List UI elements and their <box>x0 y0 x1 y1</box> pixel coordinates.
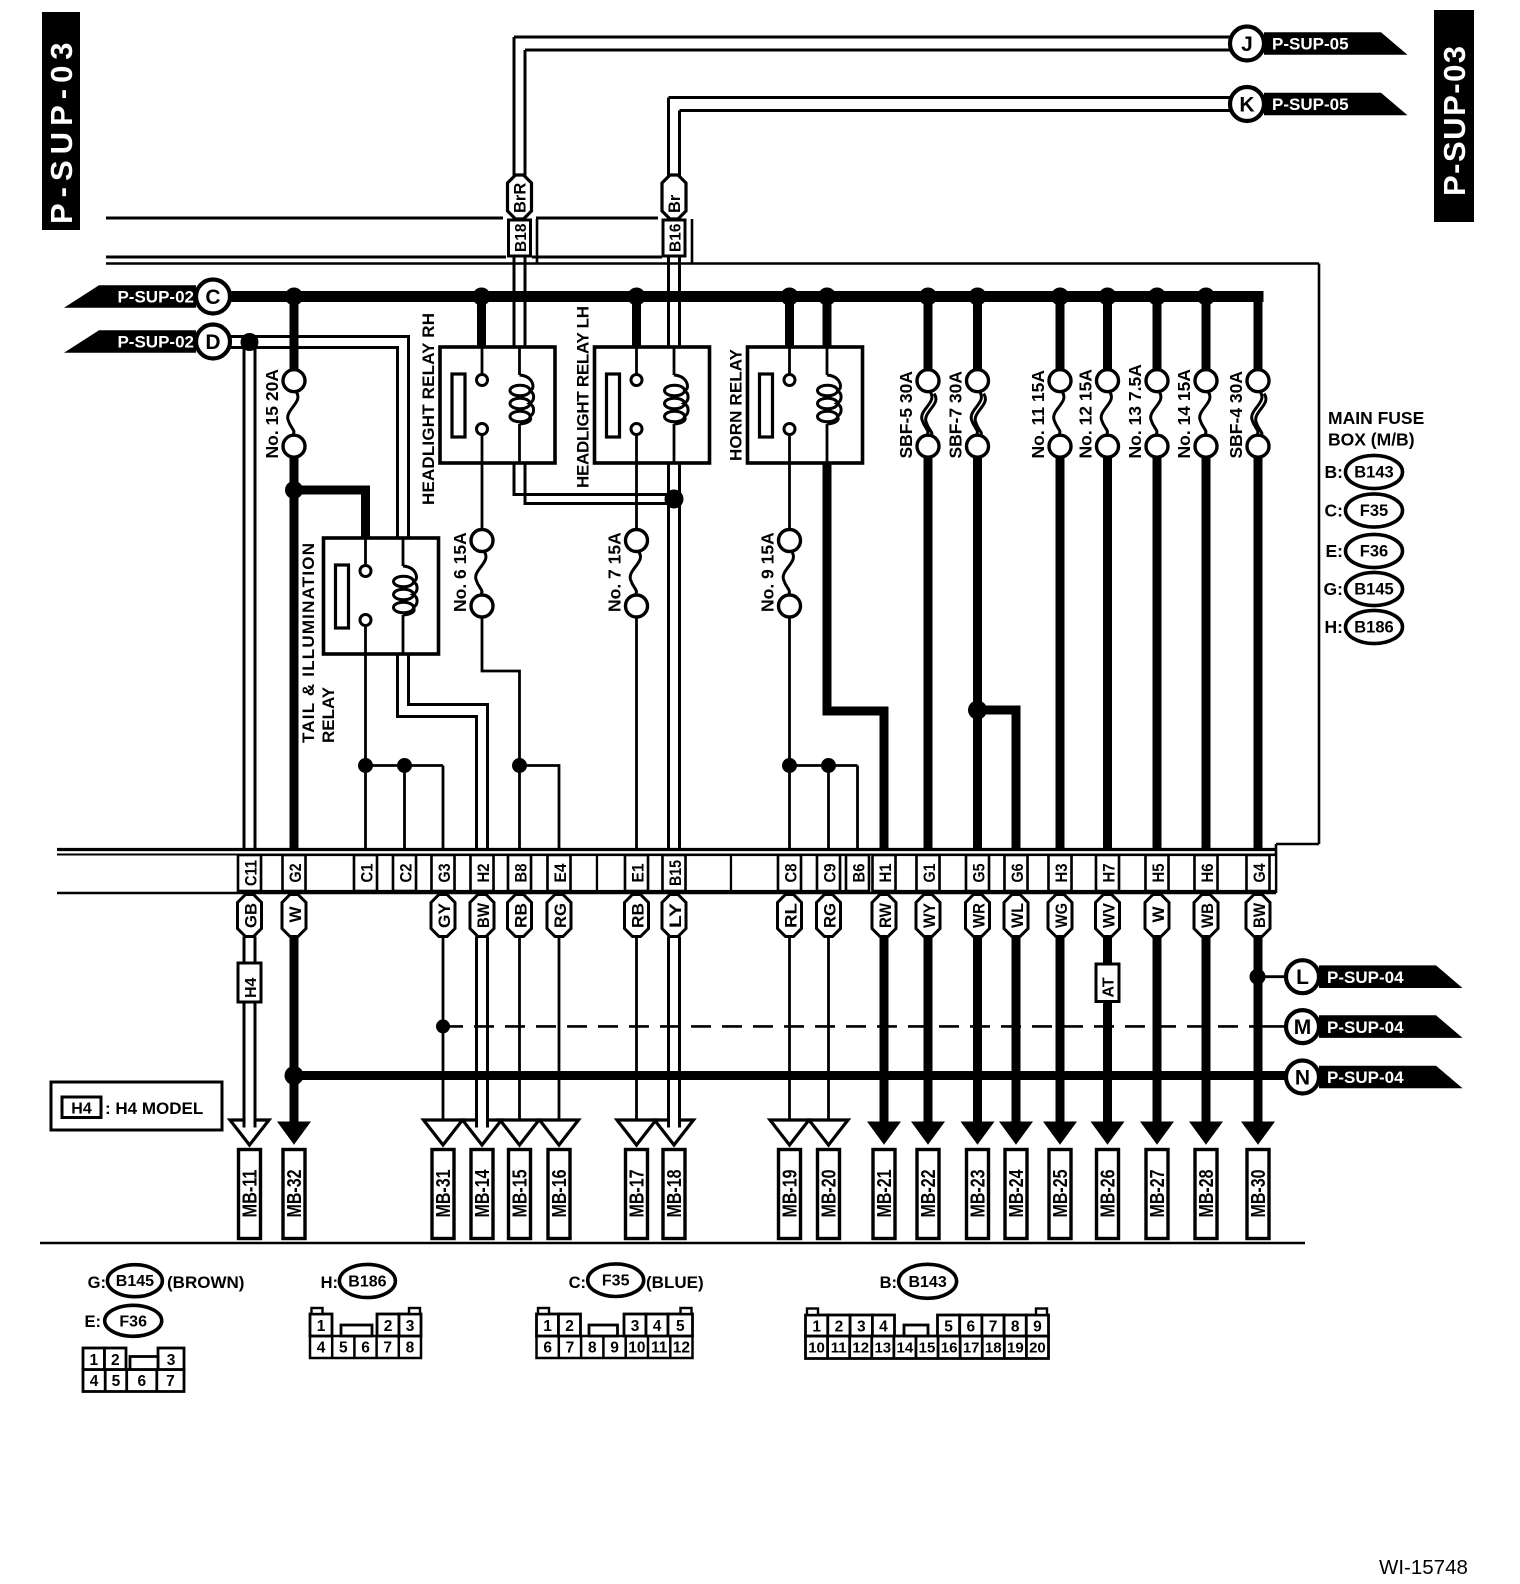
svg-text:RB: RB <box>511 903 530 928</box>
svg-text:P-SUP-02: P-SUP-02 <box>117 333 194 352</box>
wire horn contact to fuse No.9 <box>788 463 791 530</box>
svg-text:(BROWN): (BROWN) <box>167 1273 244 1292</box>
svg-text:8: 8 <box>406 1340 415 1357</box>
junction C8 tie <box>782 758 797 773</box>
svg-text:H:: H: <box>321 1274 338 1292</box>
connector diagram H 8-pin <box>310 1336 421 1358</box>
svg-text:B16: B16 <box>668 223 685 252</box>
headlight relay RH pin top <box>481 347 484 375</box>
wire color tag W x1157 <box>1145 895 1169 937</box>
svg-text:MB-30: MB-30 <box>1248 1170 1270 1218</box>
wire color tag WR x977.5 <box>966 895 990 937</box>
wire K vertical pair to B16 <box>667 98 670 177</box>
strip cell G6 <box>1005 855 1028 891</box>
svg-text:P-SUP-04: P-SUP-04 <box>1327 1068 1404 1087</box>
svg-text:GB: GB <box>241 903 260 928</box>
svg-text:2: 2 <box>835 1319 844 1336</box>
svg-text:MB-15: MB-15 <box>510 1170 532 1218</box>
solid arrow x1206 <box>1189 1122 1223 1145</box>
svg-text:12: 12 <box>852 1340 869 1357</box>
svg-text:BW: BW <box>474 902 493 928</box>
thin wire below tag x559 <box>558 937 561 1121</box>
strip cell C2 <box>393 855 416 891</box>
tail and illumination relay pin top <box>364 538 367 566</box>
svg-text:5: 5 <box>339 1340 348 1357</box>
thick wire below tag x1206 <box>1202 937 1211 1125</box>
wire BW pair to MB-14 <box>475 937 478 1121</box>
svg-text:H7: H7 <box>1101 864 1119 883</box>
svg-text:E1: E1 <box>630 864 648 883</box>
connector J circle <box>1230 27 1264 61</box>
thick wire WV below AT box <box>1103 1002 1112 1125</box>
tie line C1-C2-G3 <box>366 764 444 767</box>
thick wire horn coil jog to H1 <box>827 463 884 849</box>
thick wire WV above AT box <box>1103 937 1112 965</box>
thick wire SBF-7 to G5 <box>973 457 982 849</box>
thick wire below tag x294 <box>290 937 299 1125</box>
thin wire below tag x828.5 <box>827 937 830 1121</box>
svg-text:8: 8 <box>1011 1319 1020 1336</box>
wire fuse No.7 out to E1 <box>635 617 638 849</box>
connector N circle <box>1286 1061 1319 1094</box>
wire C9 drop <box>827 766 830 849</box>
wire fuse No.6 out to B8 <box>482 617 520 849</box>
fuse SBF-7 30A <box>967 370 989 392</box>
svg-text:6: 6 <box>543 1340 552 1357</box>
wire D pair to tail relay coil <box>230 337 409 539</box>
bus junction x1060 <box>1051 288 1069 306</box>
svg-text:G2: G2 <box>287 864 305 883</box>
open arrow x636.5 <box>617 1120 656 1145</box>
wire J vertical pair to B18 <box>513 37 516 176</box>
connector diagram G/E 7-pin <box>83 1370 184 1392</box>
svg-text:G3: G3 <box>436 864 454 883</box>
svg-text:P-SUP-03: P-SUP-03 <box>44 36 79 224</box>
strip cell G2 <box>283 855 306 891</box>
junction L on BW wire <box>1250 969 1266 985</box>
strip cell B6 <box>846 855 869 891</box>
junction G5/G6 <box>968 701 987 720</box>
svg-text:6: 6 <box>137 1373 146 1390</box>
svg-text:G6: G6 <box>1009 864 1027 883</box>
bus junction x1206 <box>1197 288 1215 306</box>
terminal MB-22 <box>917 1150 939 1239</box>
B16 strip stub <box>691 219 694 263</box>
headlight relay LH pin top <box>635 347 638 375</box>
svg-text:No. 13 7.5A: No. 13 7.5A <box>1125 364 1145 459</box>
open arrow x443 <box>424 1120 463 1145</box>
strip cell E4 <box>548 855 571 891</box>
svg-text:P-SUP-04: P-SUP-04 <box>1327 1018 1404 1037</box>
power bus from C <box>230 291 1264 302</box>
svg-text:P-SUP-03: P-SUP-03 <box>1437 44 1472 196</box>
terminal MB-21 <box>873 1150 895 1239</box>
svg-text:MB-26: MB-26 <box>1098 1170 1120 1218</box>
svg-text:3: 3 <box>406 1318 415 1335</box>
svg-text:RG: RG <box>551 903 570 928</box>
thick wire No.12 to H7 <box>1103 457 1112 849</box>
svg-text:RB: RB <box>628 903 647 928</box>
svg-text:H5: H5 <box>1150 864 1168 883</box>
svg-text:H6: H6 <box>1199 864 1217 883</box>
connector L circle <box>1286 960 1319 993</box>
svg-text:1: 1 <box>89 1352 98 1369</box>
arrow D P-SUP-02 <box>64 330 196 353</box>
svg-text:MAIN FUSE: MAIN FUSE <box>1328 408 1424 428</box>
svg-text:RL: RL <box>781 903 800 928</box>
terminal MB-14 <box>471 1150 493 1239</box>
wire color tag WG x1060 <box>1048 895 1072 937</box>
solid arrow x1258 <box>1241 1122 1275 1145</box>
wire pair tail coil to H2 <box>398 654 477 849</box>
wire branch to E4 <box>520 766 560 849</box>
main fuse box bottom-right stub <box>1276 843 1319 846</box>
svg-text:11: 11 <box>831 1340 847 1357</box>
strip cell H6 <box>1195 855 1218 891</box>
wire to L circle <box>1258 975 1287 978</box>
connector strip top lines <box>57 848 1276 851</box>
strip cell B8 <box>508 855 531 891</box>
arrow L P-SUP-04 <box>1319 965 1463 988</box>
svg-text:No. 12 15A: No. 12 15A <box>1076 369 1096 459</box>
wire color tag GY x443 <box>431 895 455 937</box>
horn relay contact bar <box>760 374 773 437</box>
wire pair B16 to LH relay coil <box>667 256 670 347</box>
svg-text:MB-31: MB-31 <box>433 1170 455 1218</box>
svg-text:6: 6 <box>361 1340 370 1357</box>
terminal MB-16 <box>548 1150 570 1239</box>
svg-text:E:: E: <box>1326 541 1344 561</box>
svg-text:(BLUE): (BLUE) <box>646 1273 704 1292</box>
wire color tag RG x559 <box>547 895 571 937</box>
terminal MB-15 <box>509 1150 531 1239</box>
wire color tag GB x249.5 <box>238 895 262 937</box>
strip cell G5 <box>966 855 989 891</box>
svg-text:G4: G4 <box>1251 863 1269 883</box>
connector K circle <box>1230 87 1264 121</box>
svg-text:C2: C2 <box>398 864 416 883</box>
wire pair RH coil jog to B15 <box>514 463 669 495</box>
wire pair B18 to RH relay coil <box>513 256 516 347</box>
bus junction G2 <box>285 288 303 306</box>
junction C9 tie <box>821 758 836 773</box>
strip cell C9 <box>817 855 840 891</box>
wire color tag Br (B16) <box>662 175 686 219</box>
svg-text:MB-28: MB-28 <box>1196 1170 1218 1218</box>
stub bus to LH relay <box>632 297 641 348</box>
svg-text:GY: GY <box>435 902 454 928</box>
connector strip empty cells <box>261 855 283 891</box>
svg-text:BrR: BrR <box>512 183 530 213</box>
svg-text:B:: B: <box>1325 462 1343 482</box>
svg-text:6: 6 <box>966 1319 975 1336</box>
relay box tail and illumination relay <box>324 538 439 654</box>
svg-text:C1: C1 <box>359 864 377 883</box>
solid arrow x977.5 <box>961 1122 995 1145</box>
fuse SBF-4 30A <box>1247 370 1269 392</box>
harness line y218 <box>106 217 503 220</box>
wire GB pair to MB-11 <box>243 1002 246 1120</box>
wire color tag WB x1206 <box>1194 895 1218 937</box>
strip cell H1 <box>873 855 896 891</box>
strip cell E1 <box>625 855 648 891</box>
arrow M P-SUP-04 <box>1319 1015 1463 1038</box>
svg-text:4: 4 <box>317 1340 326 1357</box>
svg-text:B:: B: <box>880 1274 897 1292</box>
svg-text:2: 2 <box>565 1318 574 1335</box>
thick wire SBF-4 to G4 <box>1254 457 1263 849</box>
terminal MB-18 <box>663 1150 685 1239</box>
terminal MB-23 <box>967 1150 989 1239</box>
bus junction x1157 <box>1148 288 1166 306</box>
bus junction x977.5 <box>969 288 987 306</box>
svg-text:LY: LY <box>666 902 685 928</box>
junction tail relay feed <box>285 481 303 499</box>
svg-text:C:: C: <box>1325 501 1343 521</box>
open arrow x482 <box>463 1120 502 1145</box>
fuse No.15 20A <box>283 370 305 392</box>
thick wire below tag x977.5 <box>973 937 982 1125</box>
horn relay pin bottom <box>784 424 795 435</box>
svg-text:BOX (M/B): BOX (M/B) <box>1328 430 1415 450</box>
wire tail contact out C1 <box>364 654 367 849</box>
connector M circle <box>1286 1010 1319 1043</box>
svg-text:MB-20: MB-20 <box>819 1170 841 1218</box>
svg-text:MB-25: MB-25 <box>1050 1170 1072 1218</box>
svg-text:F35: F35 <box>602 1273 630 1290</box>
svg-text:BW: BW <box>1250 902 1269 928</box>
tie line C8-C9-B6 <box>790 764 858 767</box>
relay box headlight relay RH <box>440 347 555 463</box>
svg-text:RW: RW <box>876 902 895 928</box>
H4 option box on GB wire <box>238 963 261 1002</box>
strip cell H3 <box>1049 855 1072 891</box>
terminal MB-31 <box>432 1150 454 1239</box>
svg-text:: H4 MODEL: : H4 MODEL <box>105 1099 203 1118</box>
open arrow x519.5 <box>500 1120 539 1145</box>
svg-text:MB-27: MB-27 <box>1147 1170 1169 1218</box>
svg-text:Br: Br <box>666 194 684 213</box>
thick wire below tag x884 <box>880 937 889 1125</box>
thick wire below tag x1060 <box>1056 937 1065 1125</box>
svg-text:7: 7 <box>166 1373 175 1390</box>
strip cell H2 <box>471 855 494 891</box>
svg-text:20: 20 <box>1029 1340 1046 1357</box>
svg-text:G5: G5 <box>971 864 989 883</box>
svg-text:C: C <box>205 286 220 309</box>
svg-text:14: 14 <box>897 1340 914 1357</box>
terminal MB-17 <box>626 1150 648 1239</box>
strip cell B15 <box>663 855 686 891</box>
svg-text:B145: B145 <box>1354 581 1393 599</box>
strip cell C8 <box>778 855 801 891</box>
svg-text:7: 7 <box>383 1340 392 1357</box>
svg-text:13: 13 <box>874 1340 891 1357</box>
svg-text:W: W <box>286 906 305 923</box>
junction C2 tie <box>397 758 412 773</box>
connector diagram C 12-pin <box>537 1336 693 1358</box>
svg-text:H2: H2 <box>475 864 493 883</box>
page banner right P-SUP-03 <box>1434 10 1474 222</box>
svg-text:G:: G: <box>88 1274 106 1292</box>
junction C1 tie <box>358 758 373 773</box>
svg-text:HEADLIGHT RELAY RH: HEADLIGHT RELAY RH <box>419 313 438 505</box>
solid arrow x1060 <box>1043 1122 1077 1145</box>
terminal MB-11 <box>239 1150 261 1239</box>
headlight relay LH contact bar <box>607 374 620 437</box>
fuse No.7 15A <box>626 530 648 552</box>
stub bus to fuse x977.5 <box>973 297 982 371</box>
strip cell C1 <box>354 855 377 891</box>
svg-text:MB-21: MB-21 <box>874 1170 896 1218</box>
svg-text:K: K <box>1239 94 1254 117</box>
connector strip bottom line <box>57 892 1276 895</box>
solid arrow x884 <box>867 1122 901 1145</box>
open arrow x828.5 <box>809 1120 848 1145</box>
svg-text:B18: B18 <box>513 223 530 252</box>
fuse No.9 15A <box>779 530 801 552</box>
wire J horizontal pair <box>514 36 1231 39</box>
terminal MB-26 <box>1097 1150 1119 1239</box>
stub bus to fuse x928 <box>924 297 933 371</box>
svg-text:MB-32: MB-32 <box>284 1170 306 1218</box>
thick branch to tail relay contact <box>294 490 366 538</box>
svg-text:SBF-7 30A: SBF-7 30A <box>946 371 966 459</box>
svg-text:3: 3 <box>631 1318 640 1335</box>
headlight relay LH pin bottom <box>631 424 642 435</box>
bus junction x1107.5 <box>1099 288 1117 306</box>
svg-text:B8: B8 <box>513 864 531 883</box>
stub bus to fuse No.15 <box>290 297 299 371</box>
bus junction x928 <box>919 288 937 306</box>
svg-text:MB-24: MB-24 <box>1006 1169 1028 1218</box>
stub bus to fuse x1157 <box>1153 297 1162 371</box>
svg-text:17: 17 <box>963 1340 980 1357</box>
svg-text:B186: B186 <box>1354 619 1393 637</box>
fuse No.11 15A <box>1049 370 1071 392</box>
AT option box on WV wire <box>1096 964 1119 1002</box>
svg-text:P-SUP-05: P-SUP-05 <box>1272 95 1349 114</box>
wire fuse No.9 out to C8 <box>788 617 791 849</box>
svg-text:HORN RELAY: HORN RELAY <box>727 348 746 461</box>
terminal MB-27 <box>1146 1150 1168 1239</box>
thick branch to G6 <box>978 710 1017 849</box>
junction B8/E4 <box>512 758 527 773</box>
thick wire below tag x1016 <box>1012 937 1021 1125</box>
H4 model legend <box>51 1082 222 1130</box>
svg-text:7: 7 <box>566 1340 575 1357</box>
svg-text:D: D <box>205 331 220 354</box>
svg-text:No. 6 15A: No. 6 15A <box>450 532 470 612</box>
strip cell H5 <box>1146 855 1169 891</box>
svg-text:WR: WR <box>969 903 988 928</box>
bus junction RH relay <box>473 288 491 306</box>
svg-text:AT: AT <box>1101 977 1118 997</box>
svg-text:SBF-5 30A: SBF-5 30A <box>896 371 916 459</box>
wire color tag RB x636.5 <box>625 895 649 937</box>
svg-text:RELAY: RELAY <box>319 686 338 743</box>
svg-text:No. 14 15A: No. 14 15A <box>1174 369 1194 459</box>
thick N line <box>294 1071 1287 1080</box>
wire C2 drop <box>403 766 406 849</box>
solid arrow x294 <box>277 1122 311 1145</box>
svg-text:15: 15 <box>919 1340 936 1357</box>
svg-text:H:: H: <box>1325 617 1343 637</box>
svg-text:P-SUP-02: P-SUP-02 <box>117 288 194 307</box>
connector strip right end <box>1275 844 1278 893</box>
headlight relay RH pin bottom <box>477 424 488 435</box>
thick wire No.11 to H3 <box>1056 457 1065 849</box>
svg-text:5: 5 <box>944 1319 953 1336</box>
svg-text:5: 5 <box>676 1318 685 1335</box>
svg-text:4: 4 <box>879 1319 888 1336</box>
harness line y257 <box>106 256 506 259</box>
svg-text:MB-16: MB-16 <box>549 1170 571 1218</box>
wire color tag RW x884 <box>872 895 896 937</box>
svg-text:P-SUP-05: P-SUP-05 <box>1272 35 1349 54</box>
svg-text:9: 9 <box>610 1340 619 1357</box>
tail and illumination relay coil <box>402 538 405 566</box>
svg-text:18: 18 <box>985 1340 1002 1357</box>
svg-text:G:: G: <box>1324 579 1343 599</box>
svg-text:J: J <box>1241 33 1253 56</box>
svg-text:WI-15748: WI-15748 <box>1379 1556 1468 1579</box>
svg-text:F36: F36 <box>1360 543 1388 561</box>
terminal MB-28 <box>1195 1150 1217 1239</box>
fuse No.6 15A <box>471 530 493 552</box>
terminal MB-25 <box>1049 1150 1071 1239</box>
svg-text:4: 4 <box>653 1318 662 1335</box>
stub bus to fuse x1107.5 <box>1103 297 1112 371</box>
svg-text:10: 10 <box>808 1340 825 1357</box>
dashed M option line <box>443 1025 1262 1028</box>
bus junction horn coil <box>818 288 836 306</box>
fuse No.12 15A <box>1097 370 1119 392</box>
thin wire below tag x519.5 <box>518 937 521 1121</box>
open arrow x789.5 <box>770 1120 809 1145</box>
arrow J P-SUP-05 <box>1264 32 1408 55</box>
svg-text:10: 10 <box>628 1340 645 1357</box>
svg-text:MB-19: MB-19 <box>780 1170 802 1218</box>
svg-text:WY: WY <box>920 902 939 928</box>
horn relay pin top <box>788 347 791 375</box>
fuse SBF-5 30A <box>917 370 939 392</box>
svg-text:E:: E: <box>85 1313 102 1331</box>
svg-text:C8: C8 <box>783 864 801 883</box>
svg-text:MB-22: MB-22 <box>918 1170 940 1218</box>
svg-text:WV: WV <box>1099 902 1118 928</box>
svg-text:4: 4 <box>90 1373 99 1390</box>
relay box headlight relay LH <box>595 347 710 463</box>
main fuse box top edge <box>106 262 1319 265</box>
bus junction LH relay <box>628 288 646 306</box>
svg-text:MB-17: MB-17 <box>627 1170 649 1218</box>
svg-text:RG: RG <box>820 903 839 928</box>
svg-text:N: N <box>1295 1067 1310 1090</box>
page banner left P-SUP-03 <box>42 12 80 230</box>
headlight relay LH coil <box>673 347 676 375</box>
solid arrow x928 <box>911 1122 945 1145</box>
svg-text:H1: H1 <box>877 864 895 883</box>
svg-text:11: 11 <box>651 1340 668 1357</box>
bus junction horn contact <box>781 288 799 306</box>
wire No.15 output thick <box>290 457 299 849</box>
main fuse box right edge <box>1318 264 1321 845</box>
svg-text:F36: F36 <box>119 1313 147 1330</box>
svg-text:3: 3 <box>857 1319 866 1336</box>
thick wire below tag x928 <box>924 937 933 1125</box>
stub bus to horn relay coil <box>823 297 832 348</box>
